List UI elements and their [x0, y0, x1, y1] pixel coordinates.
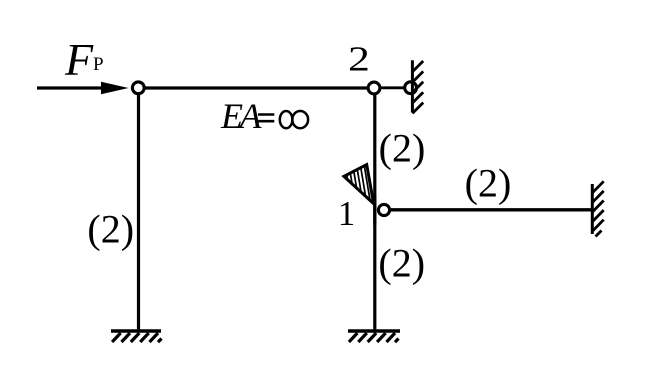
- svg-text:(2): (2): [379, 126, 426, 171]
- svg-text:2: 2: [348, 40, 370, 79]
- right wall hatches: [593, 181, 604, 236]
- wall hatches at node 2 support: [412, 61, 423, 113]
- hinge A (top-left joint): [132, 82, 144, 94]
- wall line at node 2 support: [411, 60, 414, 112]
- svg-text:A: A: [238, 96, 263, 136]
- svg-text:(2): (2): [465, 160, 512, 205]
- wedge (rigid joint mark) at node 1: [344, 158, 375, 206]
- middle column upper (member 2-1): [373, 88, 376, 331]
- right wall line: [591, 184, 594, 234]
- beam top (member A-2): [131, 86, 374, 89]
- svg-text:(2): (2): [87, 207, 134, 252]
- label FP: [64, 34, 104, 85]
- hinge 1: [378, 204, 389, 215]
- svg-text:(2): (2): [378, 240, 425, 285]
- ground hatches left support: [112, 333, 161, 342]
- svg-text:F: F: [64, 34, 94, 85]
- force arrow FP: [37, 82, 129, 94]
- hinge 2: [368, 82, 380, 94]
- ground line middle support: [348, 329, 400, 333]
- ground hatches middle support: [349, 333, 399, 342]
- svg-text:1: 1: [338, 194, 356, 233]
- horizontal member node1 to right wall: [384, 208, 592, 211]
- ground line left support: [111, 329, 161, 333]
- label EA=infinity: [220, 96, 308, 136]
- roller circle at wall: [405, 82, 417, 94]
- link bar node2 to wall roller: [380, 86, 407, 89]
- column segment over hinge1 tangent: [373, 195, 376, 225]
- left column (member A-base): [137, 88, 140, 331]
- svg-text:P: P: [93, 54, 104, 75]
